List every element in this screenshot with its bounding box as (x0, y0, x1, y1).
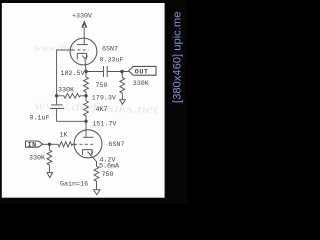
tube V1 cathode (77, 53, 86, 59)
node: grid rail at 330K (55, 94, 58, 97)
svg-text:330K: 330K (58, 87, 74, 95)
ground under cathode 750 (94, 190, 100, 195)
svg-text:OUT: OUT (135, 69, 149, 77)
svg-text:4K7: 4K7 (96, 106, 108, 114)
tube V2 plate (83, 136, 94, 138)
wire V1 cathode down to output node (85, 59, 86, 72)
svg-text:151.7V: 151.7V (92, 121, 116, 129)
svg-text:0.1uF: 0.1uF (30, 114, 50, 122)
wire output node to cap C1 (86, 71, 104, 73)
svg-text:IN: IN (28, 141, 37, 149)
svg-text:[380x460] upic.me: [380x460] upic.me (172, 12, 184, 103)
svg-text:750: 750 (102, 171, 114, 179)
svg-text:6SN7: 6SN7 (108, 141, 124, 149)
resistor R6 750 cathode (94, 166, 99, 189)
tube V2 cathode arch (88, 152, 94, 155)
node: OUT junction (120, 70, 123, 73)
ground under input 330K (47, 173, 53, 178)
tube V1 envelope (70, 38, 97, 65)
svg-text:182.5V: 182.5V (61, 70, 85, 78)
white schematic sheet (2, 3, 165, 198)
tube V2 cathode (83, 150, 93, 155)
node: output (cathode V1) (84, 70, 87, 73)
svg-text:330K: 330K (133, 80, 149, 88)
resistor R4 1K grid stopper (57, 142, 76, 147)
wire cap C1 to OUT (107, 71, 129, 73)
svg-text:+330V: +330V (72, 13, 92, 21)
svg-text:6SN7: 6SN7 (102, 46, 118, 54)
tube V1 cathode arch (82, 56, 88, 59)
wire node to V2 plate (85, 121, 87, 137)
svg-text:179.3V: 179.3V (92, 94, 116, 102)
node: V2 plate (84, 120, 87, 123)
resistor R2 750 upper (84, 72, 89, 96)
node: IN junction (48, 143, 51, 146)
svg-text:Gain=16: Gain=16 (60, 180, 88, 188)
wire IN tag to junction (43, 143, 57, 145)
resistor R3 4K7 (84, 96, 89, 122)
resistor R-load 330K vertical under OUT (120, 72, 125, 100)
power arrow +330V (82, 21, 87, 27)
ground under OUT resistor (120, 100, 126, 105)
resistor R1 330K horizontal (grid ref) (57, 93, 86, 98)
tube V1 plate (77, 44, 88, 46)
svg-text:750: 750 (96, 82, 108, 90)
OUT tag (129, 66, 156, 75)
node: 750/4K7 junction (84, 94, 87, 97)
junction dots (48, 70, 124, 146)
tube V1 grid (dashed) (72, 49, 89, 51)
IN tag (26, 141, 43, 147)
wire B+ arrow to plate (83, 27, 85, 45)
wire V2 cathode to R6 (90, 155, 96, 166)
svg-text:1K: 1K (60, 132, 68, 140)
tube V2 grid (dashed) (74, 143, 95, 145)
capacitor C2 0.1uF plates (51, 104, 63, 106)
tube V2 envelope (74, 130, 102, 158)
black frame background (0, 0, 187, 204)
capacitor C1 0.33uF plates (103, 66, 105, 77)
svg-text:0.33uF: 0.33uF (100, 56, 124, 64)
wire C2 bottom to lower plate node (57, 109, 86, 122)
svg-text:330K: 330K (29, 154, 45, 162)
wire V1 grid to left rail (57, 50, 72, 105)
svg-text:5.6mA: 5.6mA (99, 163, 120, 171)
resistor R5 330K input (47, 144, 52, 172)
